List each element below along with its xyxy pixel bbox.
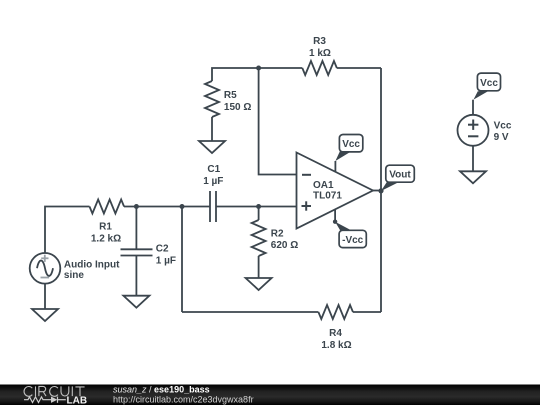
label R3 value	[309, 36, 331, 59]
wire bottom rail right of R4	[353, 311, 381, 313]
wire op-amp -Vcc stub	[334, 209, 336, 221]
svg-text:R4: R4	[329, 328, 342, 339]
label R1 value	[91, 222, 121, 245]
wire bottom rail left of R4	[182, 311, 318, 313]
wire R5 bottom to ground	[211, 117, 213, 141]
wire C1 right plate to op-amp plus input	[216, 206, 297, 208]
svg-text:Vcc: Vcc	[342, 139, 360, 150]
label op-amp OA1 TL071	[313, 180, 342, 201]
wire Vcc source top stub	[472, 100, 474, 115]
svg-text:Audio Input: Audio Input	[64, 260, 120, 271]
resistor R4	[318, 305, 353, 319]
svg-text:R3: R3	[313, 36, 326, 47]
svg-text:sine: sine	[64, 270, 84, 281]
op-amp plus input symbol	[302, 201, 312, 210]
wire Vcc source bottom to ground	[472, 146, 474, 172]
flag Vcc at 9V source	[474, 73, 501, 100]
plus sign inside Vcc source	[468, 120, 478, 130]
svg-text:1 µF: 1 µF	[156, 255, 176, 266]
wire R3 right to feedback vertical	[337, 67, 381, 69]
wire C2 bottom to ground	[135, 256, 137, 296]
svg-text:1.8 kΩ: 1.8 kΩ	[321, 340, 351, 351]
label R5 value	[224, 90, 251, 113]
resistor R2	[252, 220, 266, 256]
resistor R3	[302, 61, 337, 75]
ground below R5	[199, 141, 225, 153]
ground below audio source	[32, 309, 58, 321]
flag Vcc at op-amp	[335, 135, 362, 162]
svg-text:Vout: Vout	[389, 170, 411, 181]
label R2 value	[271, 228, 298, 251]
label R4 value	[321, 328, 351, 351]
label C2 value	[156, 244, 176, 267]
junction node dot -Vcc stub	[333, 220, 337, 224]
minus sign inside Vcc source	[468, 135, 478, 137]
svg-text:620 Ω: 620 Ω	[271, 240, 298, 251]
wire C2 branch down	[135, 207, 137, 250]
footer bar	[0, 385, 540, 405]
capacitor C2	[121, 249, 153, 255]
junction node dot R2 branch	[256, 204, 261, 209]
junction node dot top rail	[256, 66, 261, 71]
svg-text:150 Ω: 150 Ω	[224, 102, 251, 113]
wire op-amp Vcc stub	[334, 161, 336, 172]
flag Vout at output	[381, 165, 414, 191]
op-amp minus input symbol	[302, 174, 311, 176]
logo diode triangle	[51, 397, 57, 403]
logo CIRCUIT outline letters	[24, 386, 85, 396]
sine wave inside audio source	[37, 260, 53, 275]
wire feedback vertical output column	[380, 68, 382, 312]
svg-text:9 V: 9 V	[494, 132, 509, 143]
wire R1 right to C1 left plate	[124, 206, 210, 208]
svg-text:Vcc: Vcc	[494, 121, 512, 132]
minus sign inside audio source (light)	[41, 277, 50, 279]
op-amp OA1 triangle	[297, 153, 374, 229]
svg-text:LAB: LAB	[67, 395, 88, 405]
ground below Vcc source	[460, 171, 486, 183]
svg-text:C2: C2	[156, 244, 169, 255]
svg-text:susan_z / ese190_bass: susan_z / ese190_bass	[113, 385, 210, 395]
svg-text:1 kΩ: 1 kΩ	[309, 48, 331, 59]
resistor R5	[205, 81, 219, 117]
svg-text:TL071: TL071	[313, 190, 342, 201]
ground below C2	[123, 296, 149, 308]
wire source bottom to ground	[44, 284, 46, 309]
junction node dot C2 branch	[134, 204, 139, 209]
capacitor C1	[210, 191, 216, 222]
label audio source name	[64, 260, 120, 282]
junction node dot output	[378, 188, 383, 193]
junction node dot feedback branch	[180, 204, 185, 209]
svg-text:R2: R2	[271, 228, 284, 239]
svg-text:1 µF: 1 µF	[203, 176, 223, 187]
voltage source V1 audio input circle	[30, 253, 61, 284]
label C1 value	[203, 164, 223, 187]
resistor R1	[90, 200, 125, 214]
wire R2 branch down	[258, 207, 260, 221]
wire source up to main rail	[45, 207, 90, 254]
svg-text:1.2 kΩ: 1.2 kΩ	[91, 233, 121, 244]
label Vcc source value	[494, 121, 512, 144]
wire R2 bottom to ground	[258, 256, 260, 278]
svg-text:R5: R5	[224, 90, 237, 101]
svg-text:Vcc: Vcc	[480, 78, 498, 89]
plus sign inside audio source (light)	[41, 255, 48, 262]
wire inverting input from top node down and right	[259, 68, 297, 175]
svg-text:C1: C1	[207, 164, 220, 175]
voltage source Vcc 9V circle	[458, 115, 489, 146]
wire feedback branch left vertical	[181, 207, 183, 313]
svg-text:http://circuitlab.com/c2e3dvgw: http://circuitlab.com/c2e3dvgwxa8fr	[113, 394, 254, 404]
wire top rail from R5 top to R3 left	[212, 68, 302, 81]
flag -Vcc at op-amp	[335, 222, 366, 248]
ground below R2	[246, 278, 272, 290]
svg-text:R1: R1	[99, 222, 112, 233]
logo waveform resistor and diode	[24, 397, 66, 403]
svg-text:-Vcc: -Vcc	[342, 235, 364, 246]
wire op-amp output to node	[373, 190, 381, 192]
